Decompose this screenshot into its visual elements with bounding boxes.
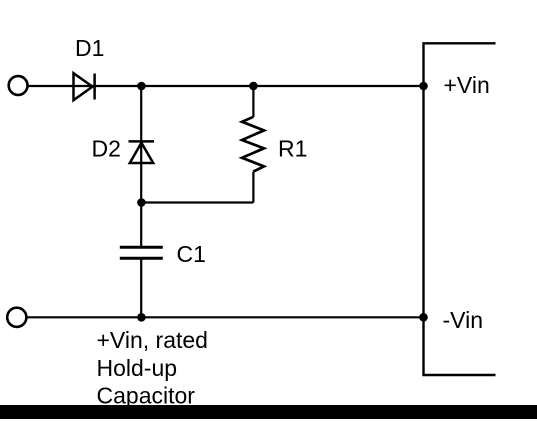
svg-text:Capacitor: Capacitor xyxy=(97,382,196,408)
svg-text:C1: C1 xyxy=(177,241,206,267)
svg-text:R1: R1 xyxy=(278,136,307,162)
svg-text:+Vin: +Vin xyxy=(444,72,490,98)
svg-text:D2: D2 xyxy=(92,136,121,162)
svg-text:Hold-up: Hold-up xyxy=(97,355,178,381)
svg-text:+Vin, rated: +Vin, rated xyxy=(97,327,208,353)
svg-text:D1: D1 xyxy=(75,35,104,61)
svg-text:-Vin: -Vin xyxy=(443,307,484,333)
